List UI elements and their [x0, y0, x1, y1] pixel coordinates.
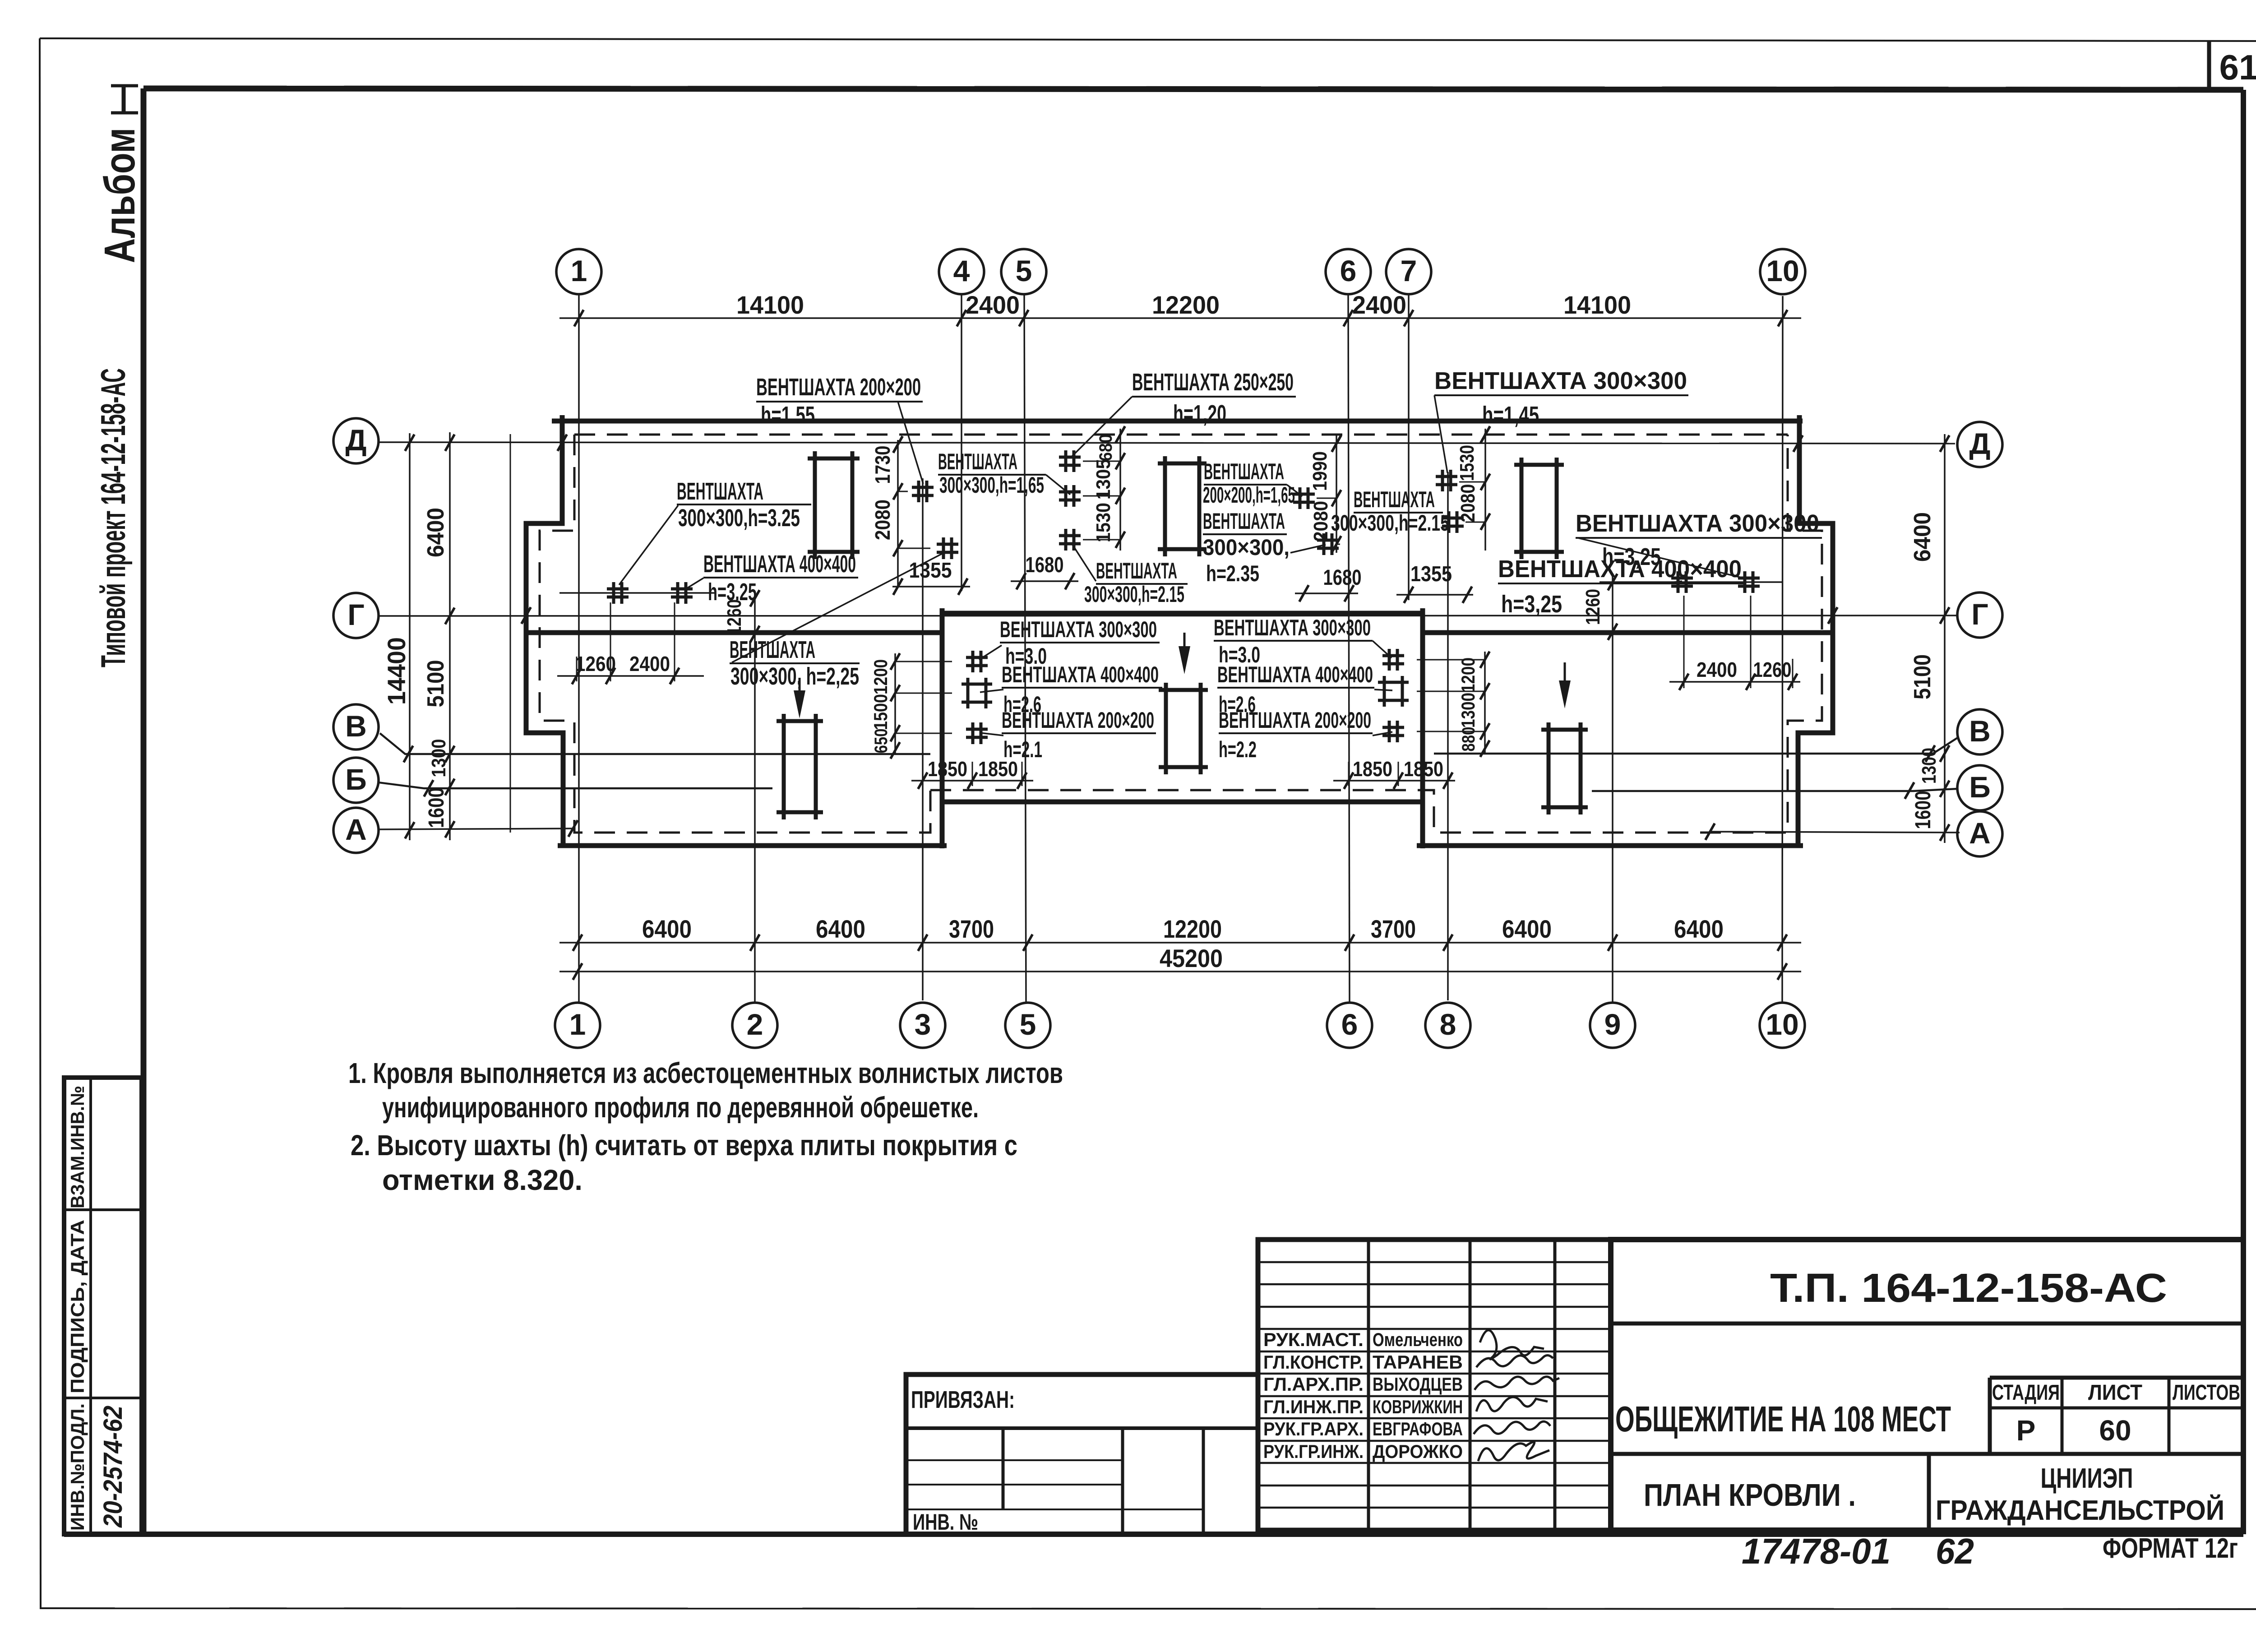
leader	[1374, 689, 1392, 690]
svg-text:h=2.35: h=2.35	[1206, 561, 1259, 586]
axis line 3	[922, 478, 924, 1000]
svg-text:ВЗАМ.ИНВ.№: ВЗАМ.ИНВ.№	[67, 1086, 88, 1208]
axis line A right	[1710, 832, 1960, 833]
axis circle Б right	[1957, 765, 2002, 810]
leader S4	[898, 548, 930, 549]
svg-text:ВЫХОДЦЕВ: ВЫХОДЦЕВ	[1373, 1374, 1463, 1395]
axis circle 5 top	[1001, 249, 1046, 294]
leader S16	[895, 733, 952, 734]
svg-text:А: А	[345, 813, 367, 846]
axis circle 7 top	[1386, 249, 1431, 294]
svg-text:1530: 1530	[1092, 503, 1114, 542]
svg-text:1300: 1300	[428, 739, 450, 777]
svg-text:РУК.ГР.АРХ.: РУК.ГР.АРХ.	[1263, 1418, 1364, 1439]
svg-text:ВЕНТШАХТА 300×300: ВЕНТШАХТА 300×300	[1434, 367, 1687, 394]
axis circle В right	[1957, 709, 2002, 754]
svg-text:В: В	[1969, 714, 1991, 748]
vent stack right wing lower	[1541, 722, 1588, 814]
frame left	[141, 88, 147, 1534]
svg-text:ВЕНТШАХТА 300×300: ВЕНТШАХТА 300×300	[1000, 617, 1157, 642]
svg-text:ЛИСТ: ЛИСТ	[2088, 1381, 2142, 1405]
svg-text:ГЛ.ИНЖ.ПР.: ГЛ.ИНЖ.ПР.	[1263, 1396, 1364, 1417]
svg-text:h=1,45: h=1,45	[1482, 402, 1539, 429]
left extension line	[510, 434, 511, 833]
svg-text:1850: 1850	[928, 757, 967, 781]
outer border top	[40, 38, 2256, 41]
leader	[1443, 515, 1449, 520]
vent shaft right of center stack lower	[1317, 533, 1339, 555]
svg-text:300×300,h=3.25: 300×300,h=3.25	[678, 504, 800, 532]
svg-text:ИНВ. №: ИНВ. №	[913, 1509, 978, 1535]
svg-text:1200: 1200	[1457, 657, 1479, 693]
svg-text:Типовой проект 164-12-158-АС: Типовой проект 164-12-158-АС	[94, 368, 133, 667]
bottom dimension line segments	[559, 942, 1801, 944]
leader S10	[1459, 481, 1485, 483]
svg-text:3: 3	[915, 1008, 931, 1041]
svg-text:12200: 12200	[1163, 915, 1222, 943]
vent stack left wing upper	[808, 451, 860, 559]
svg-text:унифицированного профиля по: унифицированного профиля по деревянной о…	[382, 1091, 979, 1124]
svg-text:2. Высоту шахты (h) считать: 2. Высоту шахты (h) считать от верха пли…	[351, 1129, 1017, 1161]
frame bottom	[64, 1532, 2243, 1537]
axis line 7	[1408, 293, 1410, 600]
axis line 5	[1024, 294, 1026, 1003]
frame right	[2241, 90, 2246, 1534]
chain near axis 4	[897, 440, 899, 587]
svg-text:Д: Д	[345, 423, 366, 457]
svg-text:1: 1	[571, 254, 587, 287]
svg-text:ВЕНТШАХТА 300×300: ВЕНТШАХТА 300×300	[1576, 510, 1819, 537]
svg-text:1355: 1355	[909, 559, 952, 583]
dim chain 1260 left (axis2 upper)	[750, 590, 760, 607]
svg-text:3700: 3700	[949, 915, 994, 943]
chain near axis 7	[1484, 429, 1486, 551]
vent shaft 400x400 left pair B	[671, 582, 693, 604]
svg-text:12200: 12200	[1152, 291, 1220, 319]
vent stack right wing upper	[1514, 458, 1564, 559]
dim 1850 1850 right	[1333, 780, 1455, 782]
svg-text:ПРИВЯЗАН:: ПРИВЯЗАН:	[911, 1386, 1015, 1413]
axis circle Б left	[333, 758, 379, 803]
axis circle 6 bottom	[1327, 1003, 1372, 1048]
leader	[1373, 641, 1392, 658]
center section top edge	[942, 611, 1423, 616]
axis circle Г right	[1957, 592, 2002, 638]
svg-text:1. Кровля выполняется из а: 1. Кровля выполняется из асбестоцементны…	[348, 1057, 1063, 1089]
svg-text:ВЕНТШАХТА: ВЕНТШАХТА	[1096, 558, 1177, 583]
svg-text:ВЕНТШАХТА: ВЕНТШАХТА	[1354, 487, 1435, 512]
signatures handwritten	[1480, 1330, 1544, 1359]
svg-text:2400: 2400	[1697, 658, 1737, 681]
axis line 8	[1447, 472, 1449, 1000]
axis circle 10 bottom	[1760, 1003, 1805, 1048]
svg-text:1: 1	[569, 1008, 586, 1041]
svg-text:680: 680	[1096, 434, 1116, 461]
vent shaft center-left trio 400	[962, 678, 992, 708]
svg-text:1990: 1990	[1309, 451, 1331, 491]
svg-text:ЛИСТОВ: ЛИСТОВ	[2173, 1381, 2240, 1405]
svg-text:880: 880	[1459, 727, 1479, 752]
building left wing bottom edge	[558, 843, 947, 848]
svg-text:1260: 1260	[1582, 589, 1604, 625]
leader	[1290, 545, 1326, 553]
svg-text:6400: 6400	[1674, 915, 1724, 943]
chain at cluster5	[1119, 429, 1121, 551]
svg-text:h=3,25: h=3,25	[1501, 591, 1562, 618]
vent shaft right pair B	[1738, 571, 1760, 593]
dim 1355 left	[892, 586, 970, 588]
axis circle 2 bottom	[732, 1003, 777, 1048]
title block signature table	[1258, 1240, 1611, 1530]
crossing ticks	[558, 435, 567, 451]
svg-text:8: 8	[1440, 1008, 1456, 1041]
svg-text:ВЕНТШАХТА: ВЕНТШАХТА	[730, 636, 815, 663]
svg-text:1600: 1600	[425, 787, 448, 828]
svg-text:ГРАЖДАНСЕЛЬСТРОЙ: ГРАЖДАНСЕЛЬСТРОЙ	[1936, 1495, 2224, 1526]
leader S17	[1417, 659, 1485, 661]
svg-text:h=2.1: h=2.1	[1003, 737, 1042, 762]
svg-text:2400: 2400	[629, 652, 670, 676]
svg-text:6: 6	[1341, 1008, 1358, 1041]
axis line 4	[961, 294, 962, 591]
slope arrow left wing	[799, 678, 801, 700]
svg-text:ГЛ.АРХ.ПР.: ГЛ.АРХ.ПР.	[1263, 1374, 1364, 1395]
svg-text:6400: 6400	[816, 915, 865, 943]
svg-text:2: 2	[747, 1008, 763, 1041]
svg-text:300×300,: 300×300,	[1203, 535, 1290, 560]
dim chain 1260 right (axis9 upper)	[1608, 574, 1618, 591]
svg-text:Г: Г	[1971, 597, 1988, 631]
axis line A left	[379, 828, 573, 829]
axis line 1	[578, 294, 580, 1003]
svg-text:ВЕНТШАХТА 200×200: ВЕНТШАХТА 200×200	[1002, 708, 1154, 733]
stamp table	[64, 1078, 142, 1534]
svg-text:1850: 1850	[1404, 757, 1443, 781]
vent shaft right pair A	[1671, 571, 1693, 593]
leader S19	[1417, 731, 1485, 732]
dim 2400 1260 right wing	[1669, 681, 1800, 683]
svg-text:1850: 1850	[1353, 757, 1392, 781]
leader S8	[1317, 498, 1336, 499]
svg-text:1355: 1355	[1410, 562, 1452, 586]
svg-text:17478-01: 17478-01	[1742, 1531, 1891, 1571]
svg-text:ВЕНТШАХТА 400×400: ВЕНТШАХТА 400×400	[703, 551, 856, 578]
axis circle В left	[333, 704, 379, 750]
svg-text:300×300,h=1,65: 300×300,h=1,65	[939, 472, 1044, 498]
title block main	[1611, 1240, 2243, 1530]
axis line B left	[379, 782, 772, 788]
svg-text:2080: 2080	[1457, 484, 1479, 523]
leader S18	[1417, 691, 1485, 692]
vent shaft center-right trio 200	[1382, 721, 1404, 742]
svg-text:4: 4	[953, 254, 970, 287]
leader	[898, 402, 923, 484]
svg-text:14100: 14100	[736, 291, 804, 319]
svg-text:5100: 5100	[423, 660, 449, 708]
vent stack center lower	[1159, 683, 1208, 774]
axis line 10	[1782, 296, 1783, 1003]
svg-text:Б: Б	[1969, 770, 1990, 804]
svg-text:1300: 1300	[1457, 693, 1479, 728]
svg-text:6400: 6400	[423, 508, 449, 557]
left wing right edge wall	[940, 608, 945, 848]
svg-text:ВЕНТШАХТА 400×400: ВЕНТШАХТА 400×400	[1217, 662, 1373, 687]
svg-text:РУК.ГР.ИНЖ.: РУК.ГР.ИНЖ.	[1263, 1441, 1364, 1462]
vent shaft center-left trio 300	[966, 651, 988, 672]
right wing roof section edge G line	[1423, 630, 1833, 635]
svg-text:ДОРОЖКО: ДОРОЖКО	[1373, 1441, 1463, 1462]
leader	[1072, 397, 1132, 457]
vent shaft cluster5 bottom	[1059, 529, 1081, 551]
vent shaft 300x300 near axis 4 lower	[937, 537, 958, 559]
dim 1680 right	[1295, 592, 1358, 594]
slope arrow center	[1183, 633, 1186, 656]
svg-text:h=2.2: h=2.2	[1219, 737, 1257, 762]
svg-text:5: 5	[1020, 1008, 1036, 1041]
svg-text:10: 10	[1766, 1008, 1798, 1041]
axis circle Д right	[1957, 422, 2002, 467]
axis circle 10 top	[1760, 249, 1805, 294]
svg-text:60: 60	[2099, 1414, 2131, 1447]
svg-text:ВЕНТШАХТА: ВЕНТШАХТА	[1203, 509, 1285, 534]
vent shaft cluster5 top	[1059, 450, 1081, 472]
svg-text:ФОРМАТ 12г: ФОРМАТ 12г	[2103, 1533, 2238, 1564]
leader S9	[1336, 544, 1340, 545]
svg-text:Д: Д	[1969, 427, 1990, 460]
svg-text:1500: 1500	[870, 694, 891, 730]
svg-text:ВЕНТШАХТА 400×400: ВЕНТШАХТА 400×400	[1002, 662, 1159, 687]
svg-text:ПОДПИСЬ, ДАТА: ПОДПИСЬ, ДАТА	[67, 1220, 88, 1393]
axis line B right	[1592, 789, 1957, 791]
svg-text:2400: 2400	[966, 291, 1020, 319]
building roof outline top edge	[552, 419, 1803, 424]
vent shaft right of center stack upper	[1293, 487, 1315, 509]
svg-text:7: 7	[1401, 254, 1417, 287]
left wing roof section edge G line	[526, 630, 942, 635]
svg-text:1530: 1530	[1456, 445, 1478, 481]
axis line 9	[1612, 575, 1613, 1003]
leader S6	[1083, 495, 1120, 497]
leader S14	[895, 661, 952, 662]
right dim chain segments	[1944, 434, 1946, 843]
center section bottom edge	[942, 800, 1423, 805]
svg-text:1260: 1260	[1753, 658, 1792, 681]
svg-text:ТАРАНЕВ: ТАРАНЕВ	[1373, 1351, 1463, 1373]
right wing pair leader line	[1600, 581, 1782, 583]
vent shaft center-left trio 200	[966, 722, 988, 744]
svg-text:5: 5	[1016, 254, 1032, 287]
axis circle 9 bottom	[1590, 1003, 1635, 1048]
svg-text:5100: 5100	[1909, 654, 1936, 699]
svg-text:14100: 14100	[1563, 291, 1631, 319]
left wing pair leader line	[559, 592, 715, 594]
roman numeral I	[122, 87, 126, 112]
svg-text:1600: 1600	[1911, 791, 1935, 829]
svg-text:СТАДИЯ: СТАДИЯ	[1992, 1381, 2060, 1405]
building left end wall steps	[526, 415, 563, 846]
svg-text:ВЕНТШАХТА: ВЕНТШАХТА	[677, 478, 763, 505]
vent shaft near axis 7 upper	[1436, 470, 1457, 491]
dim 1260 2400 left wing	[557, 675, 704, 677]
svg-text:ЕВГРАФОВА: ЕВГРАФОВА	[1373, 1418, 1463, 1439]
dashed wall contour	[574, 434, 1788, 436]
leader	[979, 645, 1002, 660]
chain center-right trio	[1484, 652, 1486, 754]
outer border left	[40, 38, 41, 1609]
leader S3	[898, 491, 908, 492]
svg-text:2080: 2080	[1310, 501, 1332, 541]
leader	[1578, 538, 1745, 578]
sheet number box	[2207, 41, 2211, 90]
svg-text:ГЛ.КОНСТР.: ГЛ.КОНСТР.	[1263, 1351, 1364, 1373]
svg-text:650: 650	[871, 729, 891, 754]
axis line D	[379, 442, 1955, 444]
leader S11	[1465, 522, 1485, 523]
building right wing bottom edge	[1417, 843, 1803, 848]
svg-text:300×300,h=2.15: 300×300,h=2.15	[1331, 510, 1449, 536]
svg-text:h=1.55: h=1.55	[761, 402, 815, 429]
axis circle Д left	[333, 418, 379, 463]
svg-text:ПЛАН КРОВЛИ .: ПЛАН КРОВЛИ .	[1644, 1477, 1856, 1513]
leader S7	[1083, 539, 1120, 541]
svg-text:ЦНИИЭП: ЦНИИЭП	[2041, 1463, 2133, 1494]
svg-text:h=1,20: h=1,20	[1173, 400, 1226, 427]
axis circle 1 bottom	[555, 1003, 600, 1048]
chain center-left trio	[894, 653, 896, 754]
leader	[980, 689, 1003, 692]
outer border bottom	[41, 1608, 2256, 1609]
svg-text:ВЕНТШАХТА 200×200: ВЕНТШАХТА 200×200	[756, 374, 921, 401]
axis circle 5 bottom	[1005, 1003, 1050, 1048]
svg-text:ОБЩЕЖИТИЕ НА 108 МЕСТ: ОБЩЕЖИТИЕ НА 108 МЕСТ	[1615, 1399, 1951, 1439]
axis circle 6 top	[1326, 249, 1371, 294]
svg-text:6400: 6400	[1502, 915, 1552, 943]
svg-text:А: А	[1969, 816, 1991, 850]
svg-text:20-2574-62: 20-2574-62	[98, 1406, 128, 1528]
vent shaft cluster5 mid	[1059, 485, 1081, 507]
svg-text:ВЕНТШАХТА 200×200: ВЕНТШАХТА 200×200	[1219, 708, 1371, 733]
svg-text:10: 10	[1766, 254, 1799, 287]
leader	[1434, 395, 1447, 473]
privyazan table	[906, 1374, 1258, 1534]
axis line V right	[1434, 737, 1958, 754]
svg-text:Г: Г	[347, 598, 364, 631]
axis circle А right	[1957, 811, 2002, 856]
svg-text:1305: 1305	[1092, 459, 1114, 500]
axis circle 1 top	[556, 249, 601, 294]
svg-text:45200: 45200	[1160, 944, 1223, 972]
axis line 6	[1348, 294, 1350, 1003]
axis line 2	[754, 591, 756, 1003]
svg-text:ИНВ.№ПОДЛ.: ИНВ.№ПОДЛ.	[67, 1403, 88, 1531]
right wing left edge wall	[1420, 608, 1425, 848]
leader	[1046, 475, 1070, 495]
dim 1850 1850 left	[911, 780, 1033, 782]
left dim chain segments	[449, 432, 451, 840]
vent stack center upper	[1158, 456, 1207, 556]
svg-text:В: В	[345, 709, 367, 743]
dim 1680 left	[1011, 580, 1078, 582]
svg-text:h=3.25: h=3.25	[708, 578, 757, 606]
vent shaft 300x300 left pair A	[607, 582, 629, 604]
svg-text:Б: Б	[345, 763, 366, 796]
axis line V left	[380, 733, 930, 754]
svg-text:1200: 1200	[870, 659, 891, 694]
slope arrow right wing	[1564, 662, 1566, 690]
vent shaft center-right trio 300	[1382, 649, 1404, 671]
vent shaft near axis 7 lower	[1442, 511, 1464, 533]
svg-text:300×300, h=2,25: 300×300, h=2,25	[730, 663, 859, 690]
svg-text:отметки 8.320.: отметки 8.320.	[382, 1164, 582, 1196]
axis circle 4 top	[939, 249, 984, 294]
leader	[732, 552, 945, 662]
leader S15	[895, 693, 952, 694]
svg-text:ВЕНТШАХТА: ВЕНТШАХТА	[938, 449, 1017, 474]
svg-text:6: 6	[1340, 254, 1357, 287]
svg-text:14400: 14400	[382, 637, 411, 705]
leader	[1373, 732, 1392, 736]
axis circle 8 bottom	[1425, 1003, 1470, 1048]
building right end wall steps	[1798, 415, 1833, 846]
leader	[980, 733, 1003, 736]
svg-text:1680: 1680	[1026, 553, 1064, 577]
frame top	[143, 88, 2243, 90]
svg-text:9: 9	[1604, 1008, 1621, 1041]
axis circle Г left	[333, 593, 379, 638]
chain right of center stack	[1336, 435, 1337, 553]
top dimension line	[559, 317, 1801, 319]
svg-text:ВЕНТШАХТА: ВЕНТШАХТА	[1204, 459, 1284, 484]
svg-text:3700: 3700	[1371, 915, 1416, 943]
svg-text:2080: 2080	[871, 500, 894, 540]
svg-text:61: 61	[2219, 47, 2256, 87]
svg-text:6400: 6400	[642, 915, 692, 943]
svg-text:Р: Р	[2016, 1414, 2036, 1447]
svg-text:200×200,h=1,65: 200×200,h=1,65	[1203, 482, 1295, 508]
svg-text:6400: 6400	[1909, 512, 1936, 562]
leader	[1663, 581, 1682, 583]
svg-text:2400: 2400	[1352, 291, 1406, 319]
leader	[1072, 543, 1096, 581]
svg-text:ВЕНТШАХТА 400×400: ВЕНТШАХТА 400×400	[1498, 555, 1742, 583]
axis circle А left	[333, 808, 379, 853]
svg-text:300×300,h=2.15: 300×300,h=2.15	[1084, 582, 1184, 607]
bottom dimension line total	[559, 971, 1801, 972]
leader	[1287, 485, 1302, 496]
vent shaft 200x200 near axis 4	[912, 481, 934, 502]
vent shaft center-right trio 400	[1378, 676, 1409, 707]
svg-text:РУК.МАСТ.: РУК.МАСТ.	[1263, 1329, 1364, 1350]
leader	[619, 505, 678, 585]
left dim chain total 14400	[409, 433, 411, 840]
svg-text:Альбом: Альбом	[96, 128, 144, 263]
svg-text:КОВРИЖКИН: КОВРИЖКИН	[1373, 1396, 1463, 1417]
dim 1355 right	[1396, 594, 1473, 596]
axis circle 3 bottom	[900, 1003, 945, 1048]
svg-text:1730: 1730	[871, 446, 894, 484]
svg-text:1680: 1680	[1323, 566, 1362, 590]
vent stack left wing lower	[777, 714, 823, 819]
svg-text:Омельченко: Омельченко	[1373, 1329, 1463, 1350]
svg-text:Т.П. 164-12-158-АС: Т.П. 164-12-158-АС	[1770, 1266, 2167, 1311]
axis line G	[379, 615, 1957, 616]
svg-text:ВЕНТШАХТА 300×300: ВЕНТШАХТА 300×300	[1214, 615, 1371, 640]
leader	[686, 578, 703, 589]
svg-text:62: 62	[1936, 1531, 1974, 1571]
svg-text:ВЕНТШАХТА 250×250: ВЕНТШАХТА 250×250	[1132, 369, 1294, 396]
leader S5	[1083, 461, 1120, 462]
